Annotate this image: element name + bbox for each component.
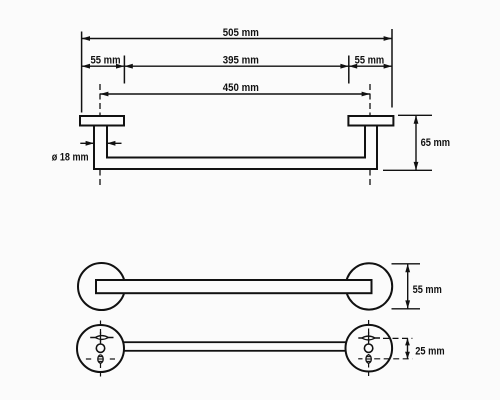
right rosette centerline horizontal lower [358, 358, 412, 360]
svg-text:55 mm: 55 mm [91, 54, 121, 66]
front view: right rosette circle [346, 263, 392, 309]
front view: bar [96, 280, 372, 293]
diameter arrow left [80, 141, 94, 146]
right rosette centerline vertical [368, 320, 370, 378]
centerline right post [369, 84, 371, 186]
svg-text:55 mm: 55 mm [413, 284, 442, 296]
right anchor wing [358, 332, 380, 344]
svg-text:55 mm: 55 mm [355, 54, 385, 66]
svg-text:450 mm: 450 mm [223, 82, 259, 94]
25 mm dimension [405, 338, 410, 358]
55 mm dimension (front view) [392, 264, 421, 309]
left anchor wing [90, 332, 113, 344]
dimension line 450 mm [100, 92, 370, 97]
bottom view: bar [100, 342, 369, 351]
svg-text:25 mm: 25 mm [415, 345, 445, 357]
svg-text:65 mm: 65 mm [421, 137, 451, 149]
front view: left rosette circle [78, 263, 125, 310]
wall plate right [348, 116, 393, 126]
dimension line 505 mm [82, 36, 392, 41]
svg-text:505 mm: 505 mm [223, 27, 259, 39]
left rosette centerline horizontal [86, 358, 115, 360]
left screw head circle [96, 344, 104, 352]
extension line left (overall) [81, 32, 83, 113]
dimension line 55 / 395 / 55 [82, 64, 392, 69]
wall plate left [80, 116, 124, 126]
towel rail outline (posts + bar, side view) [94, 126, 377, 170]
left rosette centerline vertical [100, 321, 102, 378]
svg-text:ø 18 mm: ø 18 mm [52, 152, 89, 164]
centerline left post [99, 84, 101, 186]
tick right 395/55 [348, 56, 350, 84]
extension line right (overall) [391, 29, 393, 108]
tick left 55/395 [123, 56, 125, 84]
bottom view: left rosette circle [77, 325, 124, 372]
svg-text:395 mm: 395 mm [223, 54, 259, 66]
diameter arrow right [107, 141, 122, 146]
bottom view: right rosette circle [346, 325, 393, 372]
right screw head circle [364, 344, 372, 352]
65 mm dimension [383, 115, 432, 170]
right screw thread [366, 355, 371, 363]
left screw thread [98, 355, 103, 363]
right rosette centerline horizontal upper [383, 337, 412, 339]
